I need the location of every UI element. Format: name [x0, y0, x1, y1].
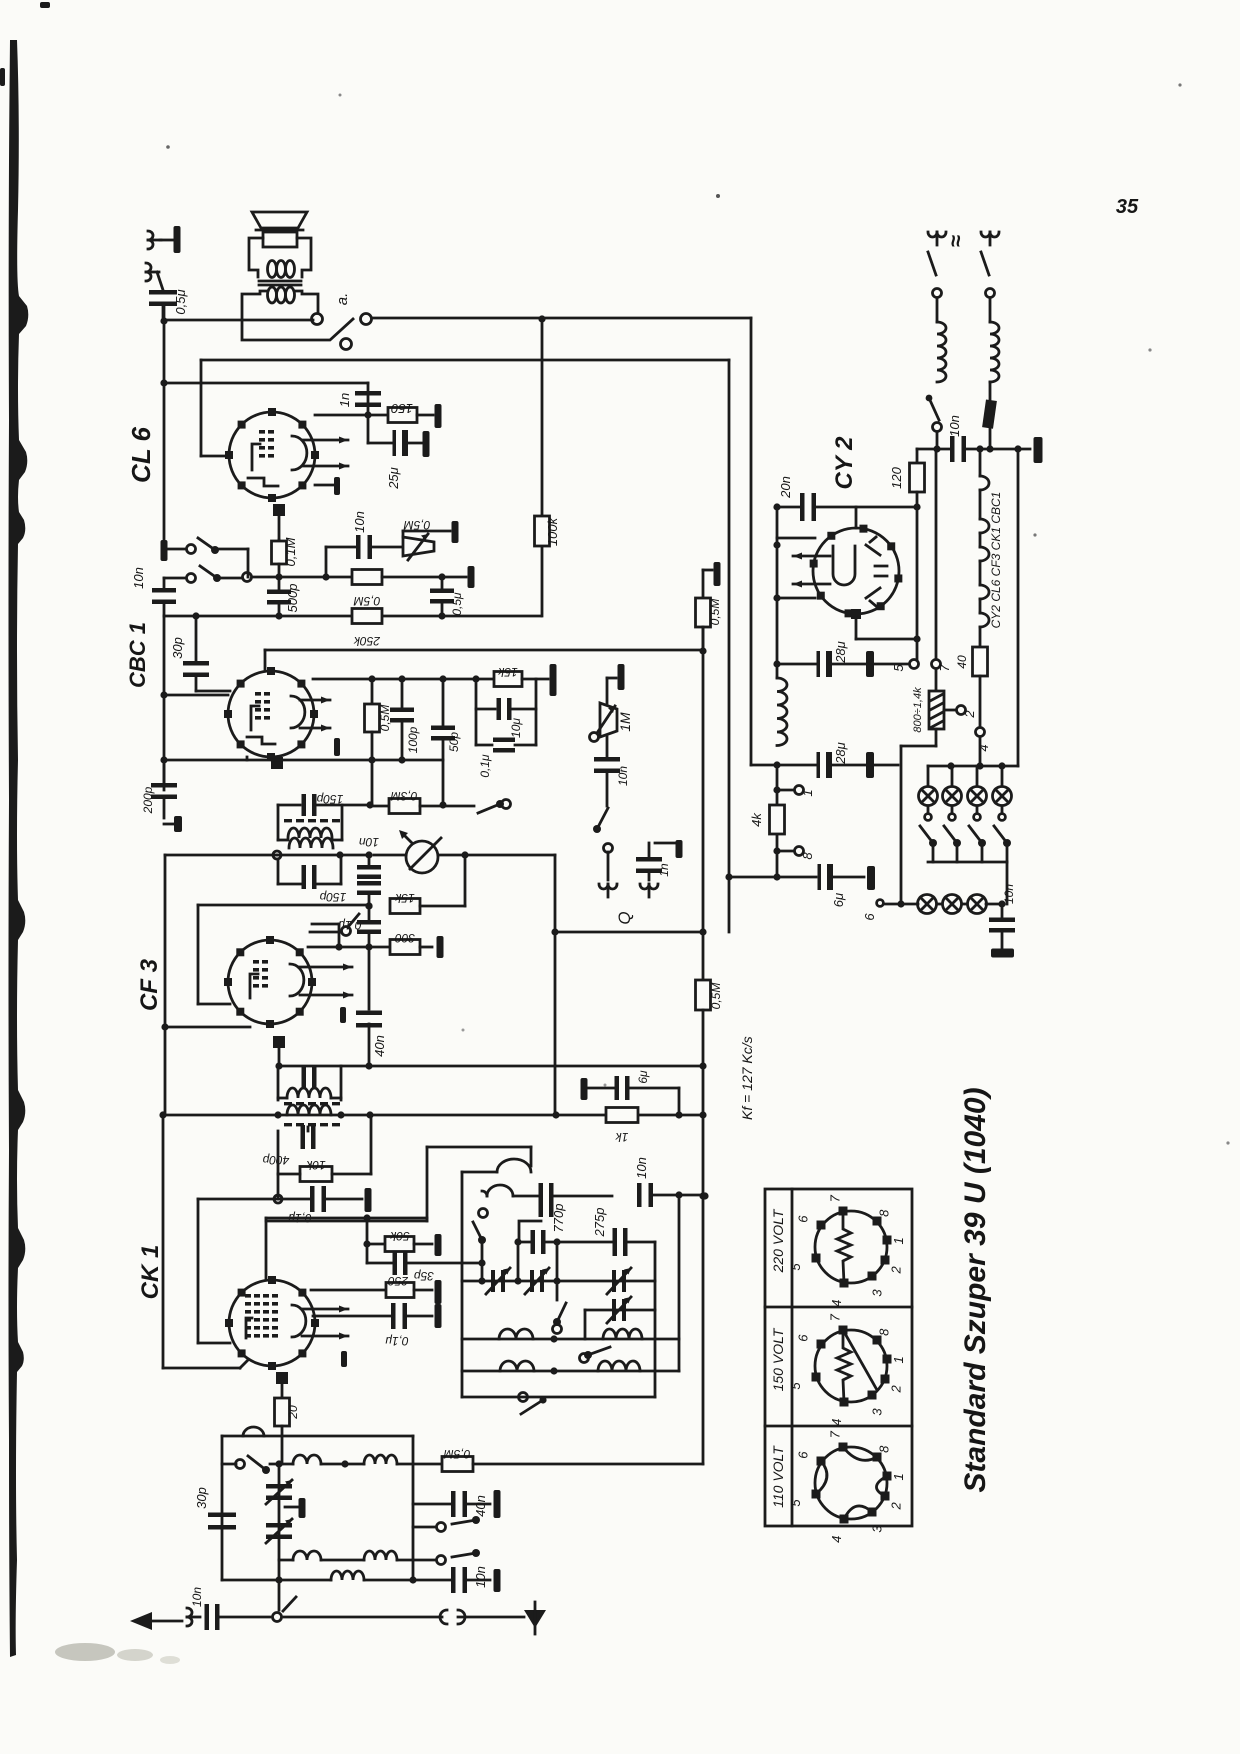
IF2 tank A: [277, 1066, 280, 1100]
svg-text:150: 150: [390, 401, 412, 416]
svg-text:50k: 50k: [389, 1229, 409, 1243]
svg-text:200p: 200p: [141, 786, 155, 814]
terminal 4: [979, 676, 982, 726]
capacitor 10n feedback: [325, 547, 328, 577]
resistor 120: [916, 449, 919, 463]
cap chain x369: [368, 855, 371, 866]
svg-text:2: 2: [888, 1384, 903, 1393]
svg-text:30p: 30p: [194, 1487, 209, 1509]
resistor 0,5M output: [702, 570, 705, 598]
left rail x777: [776, 507, 779, 678]
row y1281 trimmers: [462, 1280, 655, 1283]
svg-text:10n: 10n: [473, 1566, 488, 1588]
coil row A: [462, 1338, 679, 1341]
wire y1066: [279, 1065, 703, 1068]
phono jack J2: [146, 263, 159, 281]
row y1310 trimmer: [585, 1309, 655, 1312]
wire y932: [555, 931, 703, 934]
CK1 osc grid: [370, 1115, 373, 1174]
wire padder: [519, 1221, 541, 1242]
fuse arm L: [929, 398, 939, 420]
osc coil L5: [487, 1185, 513, 1196]
capacitor 35p: [366, 1244, 369, 1263]
rheostat 800-1,4k: [935, 670, 938, 691]
capacitor 20n: [777, 506, 801, 509]
capacitor 28u lower: [777, 764, 816, 767]
varcap tuning 2: [266, 1523, 292, 1528]
capacitor 25u: [368, 442, 392, 445]
capacitor 0,1u cf3: [368, 906, 371, 920]
output transformer T1: [259, 280, 301, 283]
svg-text:250: 250: [388, 1274, 409, 1288]
svg-text:0,5M: 0,5M: [708, 599, 722, 626]
resistor 1k: [606, 1108, 638, 1123]
svg-text:4: 4: [829, 1419, 844, 1426]
svg-text:250k: 250k: [353, 634, 381, 648]
svg-text:20n: 20n: [778, 476, 793, 499]
lamp A4: [1001, 766, 1004, 786]
wire y679 anode row: [313, 678, 494, 681]
osc coil L4: [497, 1159, 531, 1172]
resistor 10k: [277, 1131, 280, 1174]
svg-text:25μ: 25μ: [386, 467, 401, 490]
resistor 0,1M: [278, 540, 281, 541]
node y765: [773, 761, 780, 768]
svg-text:5: 5: [788, 1499, 803, 1507]
CBC1 anode arrows: [300, 699, 330, 702]
svg-text:≈: ≈: [943, 235, 968, 247]
resistor 300: [390, 940, 420, 955]
choke coil: [777, 678, 787, 746]
capacitor 28u upper: [777, 663, 816, 666]
resistor 4k: [770, 805, 785, 834]
svg-text:40n: 40n: [473, 1495, 488, 1517]
CK1 anode arrows: [302, 1308, 348, 1311]
svg-text:120: 120: [889, 466, 904, 488]
terminal 1: [776, 765, 779, 877]
capacitor 1n jack: [676, 840, 683, 858]
svg-text:Q: Q: [615, 911, 634, 924]
ground link bottom: [284, 1616, 442, 1619]
coil row B: [462, 1370, 679, 1373]
svg-text:35p: 35p: [414, 1269, 434, 1283]
capacitor 40n: [368, 947, 371, 1009]
svg-text:2: 2: [962, 710, 977, 719]
svg-text:4: 4: [829, 1300, 844, 1307]
svg-text:CBC 1: CBC 1: [125, 622, 150, 688]
bus y449: [936, 432, 939, 449]
svg-text:0,5M: 0,5M: [378, 705, 392, 732]
svg-text:3: 3: [869, 1408, 884, 1416]
svg-text:0,5M: 0,5M: [709, 983, 723, 1010]
terminal 7: [932, 660, 941, 669]
svg-text:7: 7: [937, 664, 952, 672]
svg-text:220 VOLT: 220 VOLT: [770, 1208, 786, 1273]
wire y1115: [165, 1114, 702, 1117]
resistor 40: [973, 647, 988, 676]
svg-text:1: 1: [891, 1356, 906, 1363]
magic eye: [406, 841, 438, 873]
capacitor 10n pot: [606, 737, 609, 758]
svg-text:10n: 10n: [131, 567, 146, 589]
resistor 20: [275, 1398, 290, 1426]
resistor 15k cf3: [365, 902, 372, 909]
resistor 50k: [366, 1218, 369, 1244]
capacitor 10n osc: [637, 1183, 642, 1207]
svg-text:8: 8: [877, 1445, 892, 1453]
osc switch Sc: [588, 1347, 610, 1355]
wire y1199: [198, 1198, 310, 1201]
wire x542: [541, 320, 544, 516]
IF1 tank top: [278, 804, 300, 807]
lamp bus top: [928, 765, 1018, 768]
wire y651: [699, 647, 706, 654]
capacitor 770p: [513, 1195, 540, 1198]
capacitor 10n lamps: [998, 900, 1005, 907]
svg-text:6μ: 6μ: [636, 1070, 650, 1084]
CL6 internals: [259, 430, 265, 434]
svg-text:CY 2: CY 2: [831, 436, 858, 490]
phono jack J1: [148, 231, 161, 249]
capacitor 100p: [401, 679, 404, 708]
terminal 8: [773, 847, 780, 854]
resistor 150: [388, 408, 417, 423]
capacitor 6u osc: [581, 1078, 588, 1100]
svg-text:10μ: 10μ: [509, 718, 523, 738]
wire anode corner: [367, 383, 370, 443]
svg-text:2: 2: [888, 1501, 903, 1510]
svg-text:1: 1: [891, 1473, 906, 1480]
resistor 0,5M second: [696, 980, 711, 1010]
wire y1436: [222, 1435, 413, 1438]
svg-text:7: 7: [827, 1194, 842, 1202]
svg-text:150 VOLT: 150 VOLT: [770, 1327, 786, 1391]
potentiometer 1M: [606, 678, 609, 703]
svg-text:400p: 400p: [262, 1153, 289, 1167]
svg-text:5: 5: [788, 1382, 803, 1390]
capacitor 6u: [773, 873, 780, 880]
svg-text:0,5μ: 0,5μ: [173, 289, 188, 314]
CF3 bottom pin: [273, 1036, 285, 1048]
svg-text:1M: 1M: [617, 712, 633, 732]
svg-text:6μ: 6μ: [831, 893, 846, 907]
scan smudge bottom left: [55, 1643, 115, 1661]
svg-text:2: 2: [888, 1265, 903, 1274]
band switches ant: [437, 1523, 446, 1532]
svg-text:275p: 275p: [592, 1208, 607, 1238]
wire bus y318: [164, 319, 313, 322]
svg-text:4k: 4k: [749, 812, 764, 827]
wire rail CF3: [164, 855, 167, 1115]
wire rail x729: [728, 360, 731, 932]
svg-text:0,3M: 0,3M: [391, 789, 418, 803]
coil row ant mid: [293, 1551, 321, 1560]
resistor 250: [311, 1289, 386, 1292]
svg-text:7: 7: [827, 1430, 842, 1438]
svg-text:6: 6: [796, 1215, 811, 1223]
switch avc: [342, 927, 351, 936]
switch S2a: [161, 540, 168, 561]
svg-text:28μ: 28μ: [833, 742, 848, 765]
capacitor 30p ant: [208, 1513, 236, 1518]
wire y855: [165, 854, 277, 857]
svg-text:3: 3: [869, 1525, 884, 1533]
svg-text:100p: 100p: [406, 726, 420, 753]
svg-text:150p: 150p: [319, 890, 346, 904]
IF1 tank body: [277, 805, 280, 840]
wire y924 y947: [312, 923, 339, 926]
resistor 0,5M ant: [442, 1457, 473, 1472]
wire y760: [164, 759, 443, 762]
capacitor 1n: [355, 391, 381, 396]
capacitor 30p grid: [195, 616, 198, 661]
svg-text:3: 3: [869, 1289, 884, 1297]
svg-text:1n: 1n: [337, 393, 352, 407]
capacitor 10n avc: [365, 851, 372, 858]
svg-text:8: 8: [877, 1328, 892, 1336]
voltage selector table: [765, 1189, 912, 1526]
svg-text:15k: 15k: [394, 891, 414, 905]
wire y765 rail join: [751, 764, 777, 767]
svg-text:10n: 10n: [634, 1157, 649, 1179]
osc switch Sa: [479, 1209, 488, 1218]
svg-text:5: 5: [788, 1263, 803, 1271]
svg-text:100k: 100k: [545, 516, 560, 546]
svg-text:110 VOLT: 110 VOLT: [770, 1445, 786, 1508]
wire y360: [201, 359, 729, 362]
svg-text:Kf = 127 Kc/s: Kf = 127 Kc/s: [739, 1036, 755, 1120]
svg-text:15k: 15k: [497, 665, 517, 679]
lamp A1: [927, 766, 930, 786]
mains switch L: [928, 252, 936, 275]
CL6 anode arrow 2: [303, 465, 348, 468]
terminal 150: [435, 404, 442, 428]
capacitor 0,5u: [157, 272, 163, 290]
svg-text:40n: 40n: [372, 1035, 387, 1057]
svg-text:10n: 10n: [190, 1587, 204, 1607]
capacitor 50p: [442, 679, 445, 726]
svg-text:40: 40: [955, 655, 969, 669]
svg-text:35: 35: [1116, 196, 1139, 218]
svg-text:1n: 1n: [657, 863, 671, 877]
svg-text:6: 6: [862, 913, 877, 921]
wire rail CK1: [162, 1115, 165, 1368]
switch pickup: [597, 808, 608, 829]
row y1580: [222, 1579, 331, 1582]
capacitor 10u parallel: [475, 679, 478, 745]
wire y415: [315, 414, 388, 417]
svg-text:10n: 10n: [359, 835, 379, 849]
svg-text:8: 8: [800, 852, 815, 860]
lamps row2: [1006, 862, 1009, 904]
CY2 pins wires: [855, 507, 858, 528]
chassis terminal: [1034, 437, 1043, 463]
wire rheostat down: [935, 729, 938, 746]
CY2 arrows: [793, 555, 830, 558]
CY2 filament: [833, 546, 855, 585]
terminal 5: [910, 660, 919, 669]
CK1 bottom pin: [276, 1372, 288, 1384]
svg-text:a.: a.: [334, 293, 351, 306]
antenna input: [278, 1580, 281, 1610]
capacitor 0,1u ck1 grid: [310, 1186, 315, 1212]
row y1464: [236, 1460, 245, 1469]
CL6 bottom pin: [273, 504, 285, 516]
svg-text:1k: 1k: [615, 1130, 629, 1144]
osc top L wire: [426, 1147, 429, 1221]
wire left rail x164: [163, 305, 166, 321]
switch S2b: [187, 574, 196, 583]
wire y650 to 0,5M: [264, 650, 267, 671]
terminal 2: [944, 709, 956, 712]
switch S1 speaker: [312, 314, 323, 325]
svg-text:CY2 CL6 CF3 CK1 CBC1: CY2 CL6 CF3 CK1 CBC1: [989, 492, 1003, 629]
svg-text:300: 300: [395, 931, 415, 945]
svg-text:10k: 10k: [305, 1158, 325, 1172]
resistor 15k: [494, 672, 522, 687]
CL6 shield terminal: [315, 484, 333, 487]
mains fork L: [928, 232, 946, 245]
wire to corner: [438, 854, 555, 857]
svg-text:1: 1: [800, 789, 815, 796]
svg-text:CL 6: CL 6: [126, 427, 156, 483]
bottom row osc: [462, 1396, 655, 1399]
varcap tuning 1: [278, 1464, 281, 1580]
svg-text:0,1μ: 0,1μ: [385, 1334, 409, 1348]
svg-text:50p: 50p: [447, 732, 461, 752]
wire grid feed CL6: [200, 360, 203, 456]
mains switch R: [981, 252, 989, 275]
scan border artifact left edge: [9, 40, 29, 1657]
potentiometer 0,5M: [403, 537, 434, 556]
wire y1218 long: [266, 1217, 427, 1220]
svg-text:0,1μ: 0,1μ: [478, 754, 492, 778]
CF3 grid wire: [198, 904, 368, 907]
capacitor 0,1u parallel: [476, 744, 492, 747]
primary coil L: [936, 298, 939, 322]
svg-text:0,5μ: 0,5μ: [450, 592, 464, 616]
row y1242: [514, 1238, 521, 1245]
right rail power: [1017, 449, 1020, 766]
svg-text:0,5M: 0,5M: [354, 594, 381, 608]
IF1 secondary: [273, 851, 281, 859]
svg-text:4: 4: [829, 1536, 844, 1543]
primary coil R: [989, 298, 992, 322]
capacitor 40n: [413, 1503, 450, 1506]
svg-text:6: 6: [796, 1334, 811, 1342]
capacitor 500p: [278, 577, 281, 591]
mains fork R: [981, 232, 999, 245]
svg-text:1: 1: [891, 1237, 906, 1244]
svg-text:10n: 10n: [352, 511, 367, 533]
CL6 anode arrow 1: [303, 439, 348, 442]
CF3 anode arrows: [300, 966, 352, 969]
wire rail nodes CBC1: [163, 616, 166, 790]
svg-text:10n: 10n: [616, 766, 630, 786]
svg-text:10n: 10n: [947, 415, 962, 437]
resistor 100k: [535, 516, 550, 546]
wire y616: [164, 615, 541, 618]
resistor 0,3M: [370, 805, 389, 808]
jack pickup: [604, 844, 613, 853]
svg-text:20: 20: [286, 1405, 300, 1420]
svg-text:7: 7: [827, 1313, 842, 1321]
svg-text:8: 8: [877, 1209, 892, 1217]
switch band af: [478, 804, 500, 813]
ground bar: [991, 949, 1014, 958]
heater chain: [979, 449, 982, 476]
capacitor 200p: [163, 760, 166, 784]
svg-text:28μ: 28μ: [833, 641, 848, 664]
svg-text:30p: 30p: [170, 637, 185, 659]
svg-text:4: 4: [976, 744, 991, 751]
capacitor 0,1u ck1 anode: [313, 1315, 390, 1318]
svg-text:CK 1: CK 1: [137, 1245, 164, 1300]
IF2 tank B: [274, 1111, 281, 1118]
svg-text:0,5M: 0,5M: [444, 1447, 471, 1461]
capacitor 10n mains: [950, 436, 955, 462]
svg-text:Standard Szuper 39 U (1040): Standard Szuper 39 U (1040): [959, 1087, 992, 1492]
resistor 250k: [352, 609, 382, 624]
osc switch Sb: [556, 1281, 559, 1300]
wire rail x751: [750, 318, 753, 765]
svg-text:0,1M: 0,1M: [283, 537, 298, 566]
wire y383: [164, 382, 368, 385]
svg-text:10n: 10n: [1002, 884, 1016, 904]
svg-text:770p: 770p: [551, 1204, 566, 1233]
capacitor 0,5u mid: [441, 577, 444, 590]
resistor 0,5M cbc1: [371, 679, 374, 704]
wire y577: [252, 576, 352, 579]
resistor 0,5M top: [352, 570, 382, 585]
fuse: [982, 399, 997, 428]
lamp switch bus: [928, 861, 1007, 864]
lamp A3: [976, 766, 979, 786]
CBC1 bottom pin: [271, 757, 283, 769]
svg-text:500p: 500p: [285, 584, 300, 613]
svg-text:CF 3: CF 3: [136, 958, 163, 1011]
capacitor 10n grid: [152, 588, 176, 593]
speaker LS1: [252, 212, 307, 228]
scan speckles: [716, 194, 720, 198]
lamp A2: [951, 766, 954, 786]
svg-text:800÷1,4k: 800÷1,4k: [912, 687, 924, 733]
svg-text:6: 6: [796, 1451, 811, 1459]
